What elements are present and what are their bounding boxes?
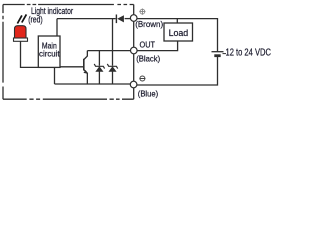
wire zener1 bottom <box>98 72 100 85</box>
enclosure border corner to plus terminal <box>133 5 135 15</box>
label (Blue) <box>138 89 159 98</box>
terminal plus (Brown) <box>130 15 137 22</box>
svg-text:Load: Load <box>169 28 189 38</box>
svg-text:(Black): (Black) <box>136 54 160 63</box>
terminal OUT (Black) <box>131 47 138 54</box>
wire OUT rail from collector corner to terminal <box>87 50 130 52</box>
wire emitter vertical <box>86 73 88 84</box>
wire load top drop <box>176 19 178 23</box>
wire terminal link plus to OUT <box>133 21 135 47</box>
wire zener2 top <box>112 19 114 66</box>
svg-text:(Blue): (Blue) <box>138 89 159 98</box>
label light indicator <box>31 6 73 16</box>
wire terminal link OUT to minus <box>133 54 135 81</box>
transistor Q1 NPN <box>84 56 88 74</box>
minus polarity symbol <box>139 76 145 81</box>
wire main circuit bottom to 0V rail <box>54 68 56 84</box>
main circuit box <box>38 36 60 67</box>
load label <box>169 28 189 38</box>
wire zener2 bottom <box>112 72 114 85</box>
plus polarity symbol <box>139 9 145 15</box>
LED light rays <box>17 14 26 23</box>
enclosure border corner to minus terminal <box>133 88 135 99</box>
enclosure dashed border left <box>2 5 4 100</box>
svg-text:(Brown): (Brown) <box>135 20 163 29</box>
label (Black) <box>136 54 160 63</box>
label (red) <box>28 15 43 25</box>
enclosure dashed border top <box>3 4 134 6</box>
battery 12 to 24 VDC <box>212 52 227 56</box>
svg-text:(red): (red) <box>28 15 43 25</box>
enclosure dashed border bottom <box>3 98 134 100</box>
wire main circuit top to +V rail <box>56 19 58 36</box>
wire plus terminal to battery top <box>137 19 218 52</box>
wire base main circuit to transistor <box>60 66 83 68</box>
wire 0V rail <box>55 83 131 85</box>
load box <box>164 23 193 41</box>
label OUT <box>140 40 156 50</box>
LED indicator lamp <box>14 26 28 42</box>
wire LED cathode down and right to main circuit <box>21 41 39 67</box>
wire OUT to load bottom <box>137 41 178 51</box>
transistor emitter arrow <box>83 70 88 74</box>
wire minus terminal to battery bottom <box>137 57 218 85</box>
wire zener1 top <box>98 51 100 66</box>
svg-text:circuit: circuit <box>39 49 60 58</box>
zener diode ZD1 <box>94 64 104 72</box>
label 12 to 24 VDC <box>226 46 272 57</box>
wire +V rail top <box>57 18 116 20</box>
terminal minus (Blue) <box>130 81 137 88</box>
svg-text:12 to 24 VDC: 12 to 24 VDC <box>226 46 272 57</box>
main circuit label <box>42 41 57 51</box>
diode D1 reverse protection <box>116 15 124 24</box>
zener diode ZD2 <box>107 64 117 72</box>
svg-text:OUT: OUT <box>140 40 156 50</box>
wire diode to plus terminal <box>125 18 131 20</box>
label (Brown) <box>135 20 163 29</box>
wire collector vertical <box>86 51 88 56</box>
